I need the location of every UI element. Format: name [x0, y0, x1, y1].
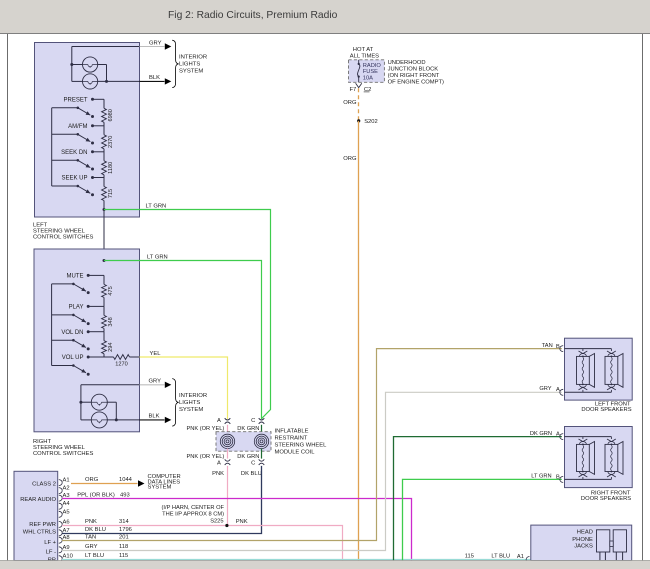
svg-text:ORG: ORG: [343, 156, 357, 162]
pin A1 radio connector: [59, 478, 70, 486]
lamp interior illumination 1: [72, 57, 107, 72]
switch S5 MUTE: [52, 274, 104, 295]
wire lamp left vertical box 1: [71, 47, 73, 82]
node LT GRN tap box 2: [103, 259, 106, 262]
svg-text:A4: A4: [63, 501, 71, 507]
svg-text:ORG: ORG: [85, 477, 99, 483]
wire speaker top bus left box: [565, 348, 612, 350]
svg-text:201: 201: [119, 535, 129, 541]
wire PNK from coil to splice S225: [227, 466, 229, 526]
svg-text:1044: 1044: [119, 477, 133, 483]
svg-text:115: 115: [465, 553, 474, 559]
svg-text:1796: 1796: [119, 527, 132, 533]
svg-text:A7: A7: [63, 528, 70, 534]
wire PPL (OR BLK) rear audio A3: [62, 499, 412, 561]
switch S2 AM/FM: [52, 124, 104, 145]
svg-text:S202: S202: [364, 119, 378, 125]
fuse F7 RADIO FUSE 10A: [358, 60, 360, 83]
svg-text:294: 294: [108, 343, 114, 352]
resistor R6 348: [102, 315, 114, 328]
svg-text:A9: A9: [63, 545, 70, 551]
wire PNK (OR YEL) into coil top: [227, 425, 229, 435]
wire switch common rail box 2: [51, 284, 53, 366]
svg-text:10A: 10A: [363, 75, 373, 81]
svg-text:GRY: GRY: [149, 40, 162, 46]
svg-text:REAR AUDIO: REAR AUDIO: [20, 497, 56, 503]
speaker right front 2: [605, 437, 623, 480]
wire ORG class 2 serial data A1: [71, 483, 138, 485]
connector pin A bottom of module coil: [217, 459, 230, 466]
arrow to interior lights GRY top: [165, 43, 172, 49]
left front door speakers box: [565, 338, 633, 400]
switch S8 VOL UP: [52, 355, 104, 376]
pin A left front speakers: [556, 387, 563, 396]
svg-text:PNK: PNK: [85, 519, 97, 525]
svg-text:LF +: LF +: [44, 540, 56, 546]
resistor R7 294: [102, 341, 114, 354]
wire LT BLU headphone jacks A10: [62, 559, 531, 561]
wire from resistor 1270 to box edge: [130, 356, 140, 358]
arrow to interior lights BLK bottom: [165, 417, 172, 423]
switch S7 VOL DN: [52, 330, 104, 351]
wire GRY lamp feed inside box 1: [72, 46, 140, 48]
svg-text:SYSTEM: SYSTEM: [179, 69, 203, 75]
svg-text:RADIO: RADIO: [363, 63, 382, 69]
svg-text:STEERING WHEEL: STEERING WHEEL: [275, 443, 328, 449]
underhood junction block box: [349, 60, 385, 83]
svg-text:LT GRN: LT GRN: [146, 203, 167, 209]
canvas left border: [7, 34, 9, 561]
pin B right front speakers: [556, 474, 563, 482]
svg-text:PNK (OR YEL): PNK (OR YEL): [186, 426, 224, 432]
switch S6 PLAY: [52, 305, 104, 326]
jack J2: [613, 530, 626, 552]
svg-text:TAN: TAN: [542, 343, 553, 349]
lamp interior illumination 3: [81, 394, 116, 410]
arrow to computer data lines system: [138, 480, 145, 486]
svg-text:DOOR SPEAKERS: DOOR SPEAKERS: [581, 496, 631, 502]
svg-text:INTERIOR: INTERIOR: [179, 55, 207, 61]
svg-text:BLK: BLK: [149, 414, 160, 420]
svg-text:PNK (OR YEL): PNK (OR YEL): [186, 454, 224, 460]
radio connector block box: [14, 471, 58, 560]
jack J1: [597, 530, 610, 552]
title bar bottom border: [0, 33, 650, 35]
wire ORG fusible segment dashed: [358, 88, 360, 119]
svg-text:GRY: GRY: [85, 544, 98, 550]
node lamp right junction box 1: [105, 80, 108, 83]
svg-text:REF PWR: REF PWR: [29, 522, 56, 528]
pin A3 radio connector: [59, 493, 70, 501]
lamp interior illumination 2: [83, 74, 98, 89]
jack J1 terminals: [600, 552, 606, 560]
svg-text:115: 115: [119, 553, 128, 559]
speaker left front 1: [577, 349, 595, 393]
label HEAD PHONE JACKS: [572, 529, 593, 549]
node lamp right junction box 2: [115, 418, 118, 421]
resistor R4 715: [102, 187, 114, 201]
label RIGHT FRONT DOOR SPEAKERS: [581, 490, 631, 502]
svg-text:A2: A2: [63, 486, 70, 492]
svg-text:PNK: PNK: [212, 471, 224, 477]
resistor R5 475: [102, 284, 114, 297]
node lamp left junction box 2: [79, 401, 82, 404]
svg-text:TAN: TAN: [85, 535, 96, 541]
wire speaker bottom bus left box: [565, 391, 612, 393]
svg-text:JACKS: JACKS: [574, 543, 593, 549]
svg-text:MODULE COIL: MODULE COIL: [275, 450, 316, 456]
splice S225 note: [162, 505, 225, 525]
svg-text:PRESET: PRESET: [63, 97, 87, 103]
svg-text:DOOR SPEAKERS: DOOR SPEAKERS: [581, 407, 631, 413]
wire lamp right vertical box 1: [106, 65, 108, 82]
svg-text:ALL TIMES: ALL TIMES: [350, 54, 379, 60]
brace interior lights system bottom: [172, 379, 178, 427]
svg-text:A6: A6: [63, 519, 70, 525]
bottom grey strip: [0, 561, 650, 569]
svg-text:475: 475: [108, 286, 114, 295]
svg-text:UNDERHOOD: UNDERHOOD: [388, 60, 426, 66]
pin A6 radio connector: [59, 519, 70, 527]
wire BLK to interior lights system top: [140, 80, 165, 82]
arrow to interior lights BLK top: [165, 78, 172, 84]
svg-text:THE I/P APPROX 8 CM): THE I/P APPROX 8 CM): [162, 511, 224, 517]
svg-text:LF -: LF -: [46, 549, 56, 555]
svg-text:PNK: PNK: [236, 519, 248, 525]
label interior lights system bottom: [179, 393, 207, 413]
svg-text:493: 493: [120, 493, 130, 499]
pin A5 radio connector: [59, 509, 70, 517]
coil clockspring left: [220, 434, 234, 448]
svg-text:INTERIOR: INTERIOR: [179, 393, 207, 399]
svg-text:Fig 2: Radio Circuits, Premium: Fig 2: Radio Circuits, Premium Radio: [168, 10, 338, 21]
wire BLK lamp return inside box 1: [72, 80, 140, 82]
svg-text:2370: 2370: [108, 136, 114, 148]
svg-text:MUTE: MUTE: [67, 274, 84, 280]
svg-text:CONTROL SWITCHES: CONTROL SWITCHES: [33, 451, 93, 457]
label COMPUTER DATA LINES SYSTEM: [148, 474, 181, 490]
svg-text:LT GRN: LT GRN: [147, 254, 168, 260]
splice S202: [357, 119, 360, 122]
wire DK BLU from coil to radio pin A7: [62, 466, 262, 534]
wire GRY lamp feed inside box 2: [81, 384, 140, 386]
switch S4 SEEK UP: [52, 176, 104, 197]
svg-text:CLASS 2: CLASS 2: [32, 481, 56, 487]
svg-text:FUSE: FUSE: [363, 69, 378, 75]
svg-text:HEAD: HEAD: [577, 529, 593, 535]
wire LT GRN from right switches to module coil: [104, 261, 262, 420]
wire PNK ref pwr A6: [62, 526, 343, 561]
wire speaker bottom bus right box: [565, 478, 612, 480]
head phone jacks box: [531, 525, 632, 560]
svg-text:HOT AT: HOT AT: [353, 47, 374, 53]
svg-text:PHONE: PHONE: [572, 537, 593, 543]
connector pin C bottom of module coil: [251, 459, 264, 466]
svg-text:PPL (OR BLK): PPL (OR BLK): [77, 493, 115, 499]
wire DK GRN right front speaker to radio: [394, 437, 562, 561]
svg-text:SEEK UP: SEEK UP: [61, 176, 87, 182]
label interior lights system top: [179, 55, 207, 75]
pin A9 radio connector: [59, 545, 70, 553]
svg-text:GRY: GRY: [149, 379, 162, 385]
switch S1 PRESET: [52, 97, 104, 118]
svg-text:A: A: [217, 461, 221, 467]
wire YEL from VOL UP ladder to module coil: [140, 357, 228, 419]
svg-text:RESTRAINT: RESTRAINT: [275, 436, 308, 442]
resistor R3 1180: [102, 161, 114, 175]
svg-text:A: A: [217, 418, 221, 424]
node lamp left junction box 1: [70, 63, 73, 66]
wire BLK to interior lights system bottom: [140, 419, 165, 421]
coil clockspring right: [254, 434, 268, 448]
svg-text:DK BLU: DK BLU: [241, 471, 262, 477]
svg-text:C: C: [251, 418, 255, 424]
pin A right front speakers: [556, 432, 563, 440]
svg-text:AM/FM: AM/FM: [68, 124, 87, 130]
svg-text:WHL CTRLS: WHL CTRLS: [23, 529, 56, 535]
svg-text:C: C: [251, 461, 255, 467]
svg-text:1180: 1180: [108, 162, 114, 174]
wire lamp right vertical box 2: [115, 402, 117, 420]
lamp interior illumination 4: [91, 412, 107, 428]
svg-text:VOL UP: VOL UP: [62, 355, 84, 361]
speaker right front 1: [577, 437, 595, 480]
node LT GRN tap box 1: [103, 208, 106, 211]
pin A2 radio connector: [59, 486, 70, 494]
wire TAN left front speaker A8: [62, 349, 562, 541]
svg-text:A10: A10: [63, 554, 73, 560]
brace interior lights system top: [172, 40, 178, 87]
label RIGHT STEERING WHEEL CONTROL SWITCHES: [33, 439, 93, 457]
wire LT GRN from left switches to module coil: [104, 210, 271, 409]
pin A1 head phone jacks: [517, 554, 530, 562]
wire resistor chain box 1: [103, 99, 105, 275]
resistor R1 6980: [102, 108, 114, 122]
right steering wheel control switches box: [34, 249, 140, 432]
inflatable restraint steering wheel module coil box: [216, 432, 271, 452]
svg-text:118: 118: [119, 544, 128, 550]
svg-text:(ON RIGHT FRONT: (ON RIGHT FRONT: [388, 73, 440, 79]
label LEFT STEERING WHEEL CONTROL SWITCHES: [33, 223, 93, 241]
svg-text:A1: A1: [517, 554, 524, 560]
wire lamp left vertical box 2: [80, 385, 82, 420]
svg-text:OF ENGINE COMPT): OF ENGINE COMPT): [388, 80, 444, 86]
svg-text:348: 348: [108, 317, 114, 326]
svg-text:LT BLU: LT BLU: [85, 553, 104, 559]
wire speaker top bus right box: [565, 436, 612, 438]
wire ORG main feed down to radio: [358, 121, 360, 560]
wire GRY to interior lights system top: [140, 46, 165, 48]
wire PNK (OR YEL) out of coil bottom: [227, 449, 229, 459]
svg-text:S225: S225: [210, 519, 223, 525]
svg-text:(I/P HARN, CENTER OF: (I/P HARN, CENTER OF: [162, 505, 225, 511]
connector pin C top of module coil: [251, 418, 264, 424]
svg-text:SYSTEM: SYSTEM: [179, 407, 203, 413]
wire LT GRN right front speaker to radio: [403, 479, 562, 560]
speaker left front 2: [605, 349, 623, 393]
svg-text:DK BLU: DK BLU: [85, 527, 106, 533]
svg-text:715: 715: [108, 189, 114, 198]
pin A7 radio connector: [59, 528, 70, 536]
svg-text:A: A: [556, 387, 560, 393]
jack J2 terminals: [616, 552, 622, 560]
label INFLATABLE RESTRAINT STEERING WHEEL MODULE COIL: [275, 429, 328, 456]
svg-text:6980: 6980: [108, 109, 114, 121]
wire DK GRN into coil top: [261, 425, 263, 435]
svg-text:DK GRN: DK GRN: [530, 431, 552, 437]
wire GRY to interior lights system bottom: [140, 384, 165, 386]
label HOT AT ALL TIMES: [350, 47, 379, 59]
connector pin A top of module coil: [217, 418, 230, 424]
svg-text:B: B: [556, 344, 560, 350]
svg-text:LIGHTS: LIGHTS: [179, 400, 200, 406]
wire DK GRN out of coil bottom: [261, 449, 263, 459]
left steering wheel control switches box: [35, 43, 140, 218]
label C2: [364, 87, 372, 93]
label RADIO FUSE 10A: [363, 63, 382, 82]
svg-text:BLK: BLK: [149, 75, 160, 81]
splice S225: [225, 524, 228, 527]
svg-text:A5: A5: [63, 509, 70, 515]
pin A4 radio connector: [59, 501, 71, 509]
arrow to interior lights GRY bottom: [165, 382, 172, 388]
svg-text:ORG: ORG: [343, 100, 357, 106]
wire GRY left front speaker A9: [62, 392, 562, 550]
svg-text:A1: A1: [63, 478, 70, 484]
svg-text:LT GRN: LT GRN: [531, 474, 551, 480]
wire resistor chain box 2: [103, 275, 105, 357]
svg-text:DK GRN: DK GRN: [237, 454, 259, 460]
label UNDERHOOD JUNCTION BLOCK: [388, 60, 444, 86]
wire switch common rail box 1: [51, 108, 53, 186]
jack link: [610, 541, 613, 547]
svg-text:SEEK DN: SEEK DN: [61, 150, 87, 156]
svg-text:INFLATABLE: INFLATABLE: [275, 429, 309, 435]
svg-text:CONTROL SWITCHES: CONTROL SWITCHES: [33, 235, 93, 241]
svg-text:YEL: YEL: [150, 351, 162, 357]
pin A10 radio connector: [59, 554, 73, 562]
svg-text:DK GRN: DK GRN: [237, 426, 259, 432]
svg-text:VOL DN: VOL DN: [61, 330, 83, 336]
svg-text:JUNCTION BLOCK: JUNCTION BLOCK: [388, 67, 439, 73]
pin A8 radio connector: [59, 535, 70, 543]
title bar: [0, 0, 650, 33]
connector C2 leaving junction block: [356, 83, 362, 87]
svg-text:GRY: GRY: [539, 386, 551, 392]
svg-text:F7: F7: [350, 87, 357, 93]
svg-text:PLAY: PLAY: [69, 305, 84, 311]
resistor R2 2370: [102, 135, 114, 149]
wire BLK lamp return inside box 2: [81, 419, 140, 421]
canvas right border: [642, 34, 644, 561]
label LEFT FRONT DOOR SPEAKERS: [581, 401, 631, 413]
right front door speakers box: [565, 427, 633, 488]
svg-text:LT BLU: LT BLU: [491, 553, 510, 559]
switch S3 SEEK DN: [52, 150, 104, 171]
resistor R8 1270: [104, 355, 130, 368]
pin B left front speakers: [556, 344, 563, 352]
svg-text:LIGHTS: LIGHTS: [179, 62, 200, 68]
svg-text:1270: 1270: [115, 362, 127, 368]
svg-text:SYSTEM: SYSTEM: [148, 485, 172, 491]
svg-text:314: 314: [119, 519, 129, 525]
